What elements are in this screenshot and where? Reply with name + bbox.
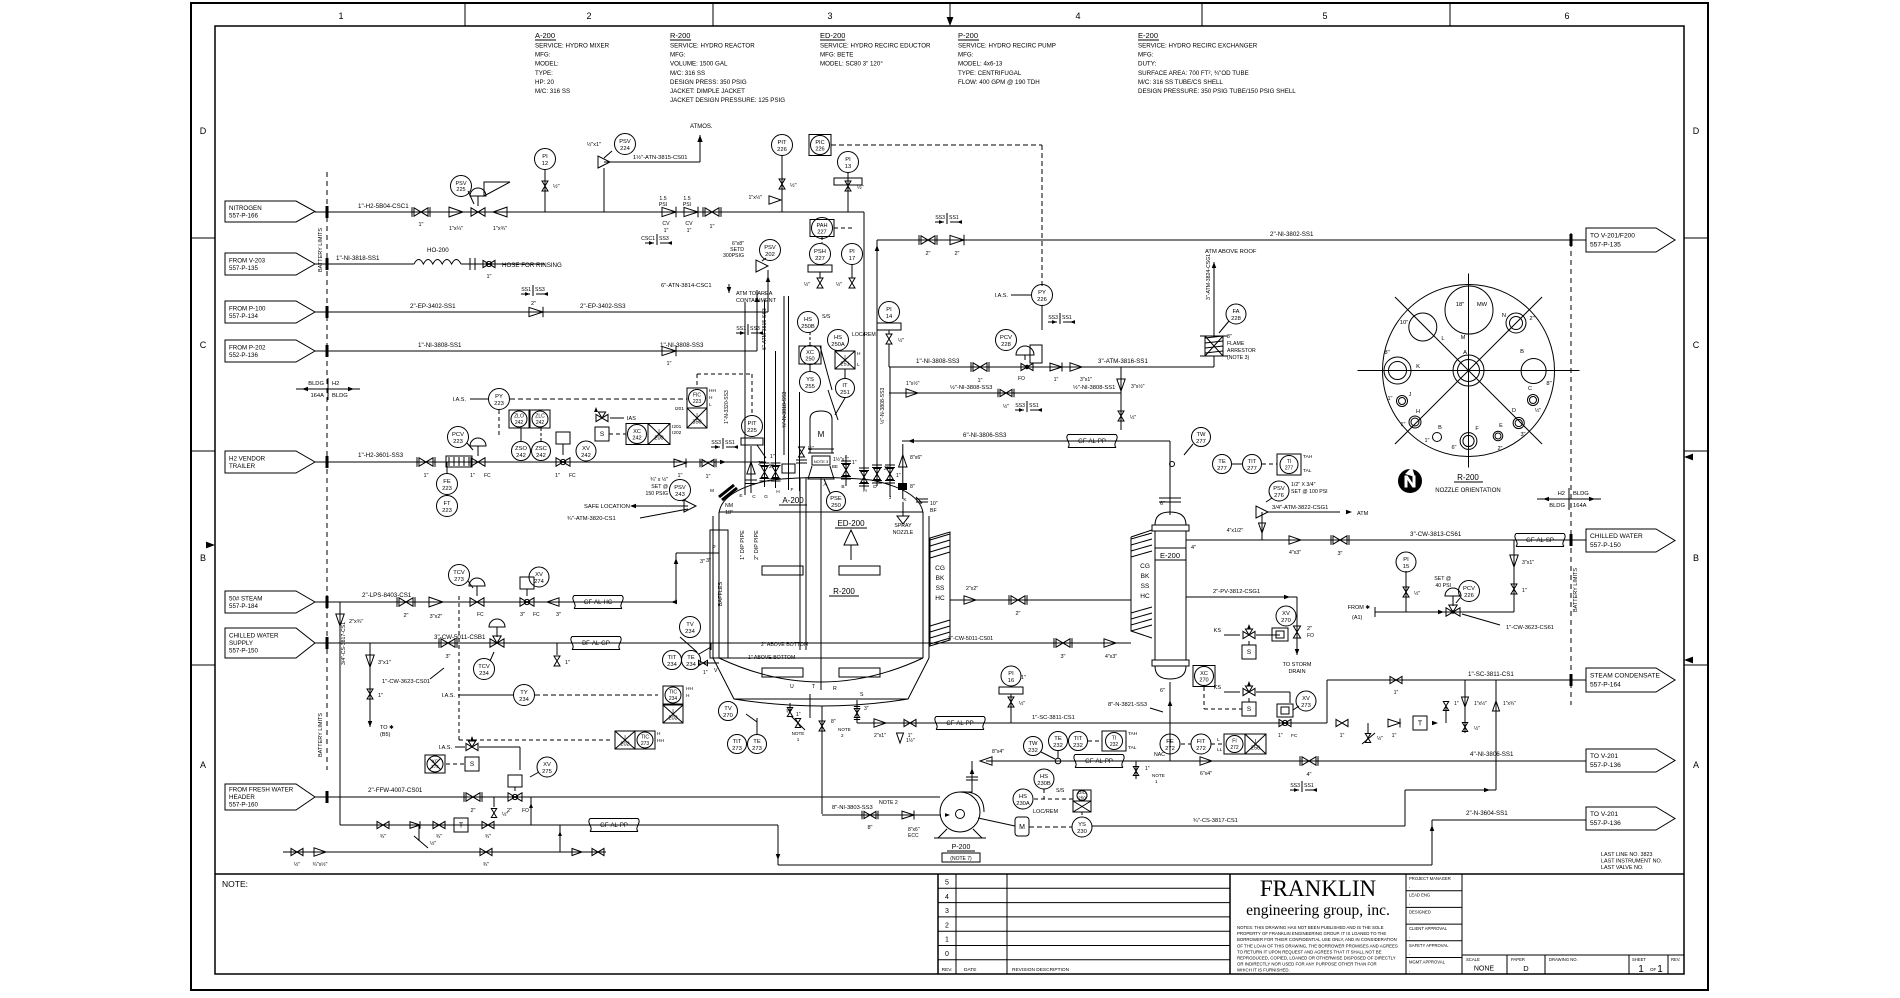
svg-text:H2 VENDOR: H2 VENDOR [229,455,266,462]
svg-text:FIC: FIC [693,393,701,399]
svg-text:HOSE FOR RINSING: HOSE FOR RINSING [502,262,562,269]
svg-text:1": 1" [687,228,692,234]
svg-text:FC: FC [484,473,491,479]
svg-text:TV: TV [686,622,694,628]
svg-text:SURFACE AREA: 700 FT², ¾"OD TU: SURFACE AREA: 700 FT², ¾"OD TUBE [1138,70,1249,77]
svg-text:PI: PI [1008,671,1014,677]
svg-text:5: 5 [945,880,949,887]
svg-text:1": 1" [1278,733,1283,739]
svg-text:BK: BK [936,575,945,582]
svg-text:L: L [709,402,712,408]
svg-text:2": 2" [531,301,536,307]
svg-text:CV: CV [662,221,670,227]
svg-text:225: 225 [747,428,757,434]
svg-text:223: 223 [442,508,452,514]
svg-text:TIT: TIT [1248,459,1257,465]
svg-text:GF-AL-SP: GF-AL-SP [1526,538,1554,544]
svg-text:1": 1" [555,473,560,479]
svg-text:I201: I201 [672,424,682,430]
svg-text:½": ½" [804,281,810,288]
svg-text:272: 272 [1230,745,1239,751]
svg-text:1½"x1": 1½"x1" [833,456,849,463]
svg-text:I202: I202 [672,430,682,436]
svg-text:H: H [863,488,867,494]
svg-text:8": 8" [1546,381,1551,387]
svg-text:N: N [1502,313,1506,319]
svg-text:XV: XV [1282,611,1290,617]
svg-text:DRAIN: DRAIN [1288,669,1305,675]
svg-text:MW: MW [1477,302,1488,308]
svg-text:2": 2" [1307,626,1312,632]
svg-text:12: 12 [542,161,548,167]
svg-text:1"-SC-3811-CS1: 1"-SC-3811-CS1 [1032,715,1075,721]
svg-text:6: 6 [1564,11,1569,21]
svg-text:H2: H2 [1558,491,1565,497]
svg-text:1": 1" [1522,588,1527,594]
svg-text:.: . [1409,917,1410,923]
svg-text:1"-CW-3623-CS01: 1"-CW-3623-CS01 [382,679,430,685]
svg-text:FLOW: 400 GPM @ 190 TDH: FLOW: 400 GPM @ 190 TDH [958,79,1040,86]
svg-text:XV: XV [1302,696,1310,702]
svg-text:ZLC: ZLC [535,414,545,420]
svg-text:D: D [873,484,877,490]
svg-text:2"-NI-3802-SS1: 2"-NI-3802-SS1 [1270,231,1314,238]
svg-text:.: . [1409,901,1410,907]
svg-text:224: 224 [620,146,630,152]
svg-text:M: M [710,488,714,494]
svg-text:H: H [709,395,713,401]
svg-text:3"-CW-5011-CSB1: 3"-CW-5011-CSB1 [434,634,486,641]
svg-text:CSC1: CSC1 [641,236,655,242]
svg-text:H2: H2 [332,381,339,387]
svg-text:A-200: A-200 [535,31,555,40]
svg-text:234: 234 [686,662,696,668]
svg-text:S: S [860,692,864,698]
svg-text:3: 3 [827,11,832,21]
svg-text:HH: HH [657,738,664,744]
svg-text:.: . [1409,884,1410,890]
svg-text:SAFETY APPROVAL: SAFETY APPROVAL [1409,943,1449,948]
svg-text:PSI: PSI [683,202,691,208]
svg-text:M/C: 316 SS: M/C: 316 SS [535,88,570,95]
svg-text:SS1: SS1 [949,215,959,221]
svg-text:277: 277 [1247,466,1257,472]
svg-text:1"-SC-3811-CS1: 1"-SC-3811-CS1 [1468,671,1514,678]
svg-text:D: D [1693,126,1700,136]
svg-text:VOLUME: 1500 GAL: VOLUME: 1500 GAL [670,61,728,68]
svg-text:A: A [1693,760,1699,770]
svg-text:XV: XV [535,572,543,578]
svg-text:HS: HS [834,335,842,341]
svg-text:PSH: PSH [814,249,826,255]
svg-text:C: C [1528,386,1532,392]
svg-text:1"-H2-5B04-CSC1: 1"-H2-5B04-CSC1 [358,203,409,210]
svg-text:DATE: DATE [964,967,976,973]
svg-text:T: T [1418,721,1423,728]
svg-text:HH: HH [709,388,716,394]
svg-text:LOC/REM: LOC/REM [1033,809,1058,815]
svg-text:3"-ATM-3816-SS1: 3"-ATM-3816-SS1 [1098,358,1148,365]
svg-text:5: 5 [1322,11,1327,21]
svg-text:3": 3" [1060,654,1065,660]
svg-text:227: 227 [815,256,825,262]
svg-text:2": 2" [403,613,408,619]
svg-text:M/C: 316 SS: M/C: 316 SS [670,70,705,77]
svg-text:ECC: ECC [908,833,919,839]
svg-text:1"-CW-3623-CS61: 1"-CW-3623-CS61 [1506,625,1554,631]
svg-text:I201: I201 [675,406,685,412]
svg-text:REPRODUCED, COPIED, LOANED OR: REPRODUCED, COPIED, LOANED OR OTHERWISE … [1237,956,1396,961]
svg-text:H: H [657,731,661,737]
svg-text:NM: NM [725,503,733,509]
svg-text:226: 226 [1037,297,1047,303]
svg-text:2"-PV-3812-CSG1: 2"-PV-3812-CSG1 [1213,589,1260,595]
svg-text:CHILLED WATER: CHILLED WATER [1590,533,1643,540]
svg-text:ZSO: ZSO [515,446,527,452]
svg-text:M: M [1461,335,1466,341]
svg-text:B: B [200,553,206,563]
svg-text:.: . [1409,934,1410,940]
svg-text:F: F [791,487,794,493]
svg-text:SERVICE: HYDRO RECIRC EDUCTOR: SERVICE: HYDRO RECIRC EDUCTOR [820,43,931,50]
svg-text:273: 273 [641,741,650,747]
svg-text:1" ABOVE BOTTOM: 1" ABOVE BOTTOM [748,655,795,661]
svg-text:0: 0 [945,951,949,958]
svg-text:NOTE: NOTE [838,727,851,732]
svg-text:TW: TW [1028,741,1038,747]
svg-text:242: 242 [536,420,545,426]
svg-text:164A: 164A [310,393,324,399]
svg-text:I.A.S.: I.A.S. [442,693,456,699]
svg-text:V: V [714,668,718,674]
svg-text:270: 270 [1199,678,1208,684]
svg-text:223: 223 [494,401,504,407]
svg-text:1": 1" [418,222,423,228]
svg-text:3": 3" [706,558,711,564]
svg-text:XV: XV [543,762,551,768]
svg-text:1": 1" [664,228,669,234]
svg-text:273: 273 [454,577,464,583]
svg-text:242: 242 [516,453,526,459]
svg-text:SS3: SS3 [1048,315,1058,321]
svg-text:277: 277 [1217,466,1227,472]
svg-text:2"-EP-3402-SS1: 2"-EP-3402-SS1 [410,303,456,310]
svg-text:JACKET DESIGN PRESSURE: 125 PS: JACKET DESIGN PRESSURE: 125 PSIG [670,97,785,104]
svg-text:SS1: SS1 [1304,783,1314,789]
svg-text:C: C [1693,340,1700,350]
svg-text:(NOTE 3): (NOTE 3) [1227,355,1249,361]
svg-text:HP: 20: HP: 20 [535,79,554,86]
svg-text:MFG:: MFG: [958,52,974,59]
svg-text:T: T [459,823,464,830]
svg-text:GF-AL-PP: GF-AL-PP [600,823,628,829]
svg-text:CG: CG [935,565,945,572]
svg-text:PI: PI [1403,557,1409,563]
svg-text:PSE: PSE [830,496,842,502]
svg-text:PAH: PAH [816,223,827,229]
svg-text:TI: TI [1287,459,1291,465]
svg-text:HEADER: HEADER [229,794,255,801]
svg-text:TCV: TCV [453,570,465,576]
svg-text:2" DIP PIPE: 2" DIP PIPE [754,530,760,560]
svg-text:L: L [1217,737,1220,743]
svg-text:251: 251 [840,390,850,396]
svg-text:DUTY:: DUTY: [1138,61,1157,68]
svg-text:4"x3": 4"x3" [1289,550,1301,556]
svg-text:202: 202 [620,742,629,748]
svg-text:8": 8" [831,719,836,725]
svg-text:D: D [1512,408,1516,414]
svg-text:2"x¾": 2"x¾" [349,619,363,625]
svg-text:1"x¾": 1"x¾" [1503,701,1516,707]
svg-text:3"x1": 3"x1" [378,660,391,666]
svg-text:E-200: E-200 [1138,31,1158,40]
svg-text:NAC: NAC [1154,752,1165,758]
svg-text:223: 223 [693,399,702,405]
svg-text:TIC: TIC [641,735,649,741]
svg-text:OF THE LOAN OF THIS DRAWING, T: OF THE LOAN OF THIS DRAWING, THE BORROWE… [1237,943,1398,948]
svg-text:DRAWING NO.: DRAWING NO. [1549,957,1578,962]
svg-text:LAST INSTRUMENT NO.: LAST INSTRUMENT NO. [1601,859,1662,865]
svg-text:50# STEAM: 50# STEAM [229,595,262,602]
svg-text:PCV: PCV [452,432,464,438]
svg-text:SERVICE: HYDRO RECIRC EXCHANGE: SERVICE: HYDRO RECIRC EXCHANGER [1138,43,1258,50]
svg-text:242: 242 [632,436,641,442]
svg-text:40 PSI: 40 PSI [1435,583,1451,589]
svg-text:18": 18" [725,510,733,516]
svg-text:SS1: SS1 [1029,403,1039,409]
svg-text:1": 1" [1387,396,1392,402]
svg-text:SERVICE: HYDRO MIXER: SERVICE: HYDRO MIXER [535,43,610,50]
svg-text:1": 1" [565,660,570,666]
svg-text:3": 3" [700,559,705,565]
svg-text:1": 1" [470,473,475,479]
svg-text:PSV: PSV [1273,486,1285,492]
svg-text:G: G [764,494,768,500]
svg-text:H: H [1416,409,1420,415]
svg-text:FROM ✱: FROM ✱ [1348,604,1371,611]
svg-text:TIT: TIT [668,655,677,661]
svg-text:557-P-150: 557-P-150 [229,648,258,655]
svg-text:SUPPLY: SUPPLY [229,640,253,647]
svg-text:PSI: PSI [659,202,667,208]
svg-text:STEAM CONDENSATE: STEAM CONDENSATE [1590,673,1660,680]
svg-text:½": ½" [553,183,560,190]
svg-text:557-P-166: 557-P-166 [229,212,258,219]
svg-text:3: 3 [945,908,949,915]
svg-text:10": 10" [1400,320,1409,326]
svg-text:ATM TO AREA: ATM TO AREA [736,291,773,297]
svg-text:NOTES: THIS DRAWING HAS NOT BE: NOTES: THIS DRAWING HAS NOT BEEN PUBLISH… [1237,925,1384,930]
svg-text:1": 1" [1392,733,1397,739]
svg-text:8": 8" [867,825,872,831]
svg-text:3"-ATM-3824-CSG1: 3"-ATM-3824-CSG1 [1206,254,1212,300]
svg-text:SERVICE: HYDRO REACTOR: SERVICE: HYDRO REACTOR [670,43,755,50]
svg-text:225: 225 [456,187,465,193]
svg-text:½": ½" [898,337,904,344]
svg-text:TAL: TAL [1128,745,1137,751]
svg-text:HC: HC [1140,593,1150,600]
svg-text:MGMT APPROVAL: MGMT APPROVAL [1409,960,1446,965]
svg-text:6": 6" [1451,445,1456,451]
svg-text:JACKET: DIMPLE JACKET: JACKET: DIMPLE JACKET [670,88,745,95]
svg-text:232: 232 [1073,743,1083,749]
svg-text:½": ½" [1130,414,1136,421]
svg-text:1: 1 [945,937,949,944]
svg-text:IT: IT [842,383,848,389]
svg-text:½"x1": ½"x1" [587,141,601,148]
svg-text:1": 1" [666,361,671,367]
svg-text:B: B [1693,553,1699,563]
svg-text:½": ½" [790,182,797,189]
svg-text:557-P-150: 557-P-150 [1590,542,1621,549]
svg-text:1½"-ATN-3815-CS01: 1½"-ATN-3815-CS01 [633,154,687,161]
svg-text:¾": ¾" [483,862,489,868]
svg-text:552-P-136: 552-P-136 [229,352,258,359]
svg-text:½": ½" [1474,725,1480,732]
svg-text:PSV: PSV [674,485,686,491]
svg-text:2"-EP-3402-SS3: 2"-EP-3402-SS3 [580,303,626,310]
svg-text:4"x1/2": 4"x1/2" [1227,528,1244,534]
svg-text:½": ½" [1019,700,1025,707]
svg-text:1": 1" [709,224,714,230]
svg-text:E: E [739,493,742,499]
svg-text:PCV: PCV [1463,586,1475,592]
svg-text:PI: PI [886,307,892,313]
svg-text:¾" x ½": ¾" x ½" [650,476,668,483]
svg-text:.: . [1409,951,1410,957]
svg-text:½": ½" [430,840,436,847]
svg-text:½": ½" [502,811,508,818]
svg-text:FROM P-100: FROM P-100 [229,305,266,312]
svg-text:SS3: SS3 [711,440,721,446]
svg-text:H: H [686,693,690,699]
svg-text:TO V-201: TO V-201 [1590,753,1618,760]
svg-text:1": 1" [896,473,901,479]
svg-text:M: M [818,430,825,439]
svg-text:SHEET: SHEET [1632,957,1646,962]
svg-text:1"-NI-3808-SS1: 1"-NI-3808-SS1 [418,342,462,349]
svg-text:½": ½" [1003,403,1009,410]
svg-text:2": 2" [1529,316,1534,322]
svg-text:P-200: P-200 [952,844,971,851]
svg-text:2: 2 [841,733,844,738]
svg-text:HH: HH [686,686,693,692]
svg-text:17: 17 [849,256,855,262]
svg-text:GF-AL-PP: GF-AL-PP [1085,759,1113,765]
svg-text:PI: PI [542,154,548,160]
svg-text:½": ½" [836,281,842,288]
svg-text:TY: TY [520,690,528,696]
svg-text:2: 2 [586,11,591,21]
svg-text:3"-CW-3813-CS61: 3"-CW-3813-CS61 [1410,531,1462,538]
svg-text:2"x2": 2"x2" [966,586,978,592]
svg-text:2"-N-3604-SS1: 2"-N-3604-SS1 [1466,810,1508,817]
svg-text:R-200: R-200 [1457,473,1479,482]
svg-text:U: U [790,684,794,690]
svg-text:NOTE 2: NOTE 2 [879,800,898,806]
svg-text:203: 203 [668,716,677,722]
svg-text:A: A [1463,350,1467,356]
svg-text:250: 250 [805,357,814,363]
svg-text:PIT: PIT [777,140,786,146]
svg-text:14: 14 [886,314,893,320]
svg-text:MFG: BETE: MFG: BETE [820,52,853,59]
svg-text:FRANKLIN: FRANKLIN [1260,876,1377,901]
svg-text:D: D [1523,964,1529,973]
svg-text:232: 232 [1028,748,1038,754]
svg-text:BAFFLES: BAFFLES [718,581,724,606]
svg-text:MODEL: 4x6-13: MODEL: 4x6-13 [958,61,1003,68]
svg-text:BLDG: BLDG [308,381,324,387]
svg-text:ATMOS.: ATMOS. [690,124,713,130]
svg-text:LL: LL [1217,747,1223,753]
svg-text:FROM P-202: FROM P-202 [229,344,266,351]
svg-text:250: 250 [831,503,841,509]
svg-text:E: E [1499,423,1503,429]
svg-text:A-200: A-200 [782,496,804,505]
svg-text:3": 3" [556,612,561,618]
svg-text:274: 274 [534,579,544,585]
svg-text:TE: TE [1218,459,1226,465]
svg-text:242: 242 [581,453,591,459]
svg-text:FE: FE [443,479,451,485]
svg-text:1: 1 [1155,779,1158,784]
svg-text:1": 1" [1054,377,1059,383]
svg-text:FO: FO [522,808,529,814]
svg-text:LEAD ENG: LEAD ENG [1409,893,1430,898]
svg-text:223: 223 [442,486,452,492]
svg-text:PY: PY [495,394,503,400]
svg-text:NITROGEN: NITROGEN [229,205,262,212]
svg-text:PSV: PSV [764,245,776,251]
svg-text:ARRESTOR: ARRESTOR [1227,348,1256,354]
svg-text:L: L [920,500,923,506]
svg-text:SS3: SS3 [935,215,945,221]
svg-text:(NOTE 7): (NOTE 7) [950,856,972,862]
svg-text:L: L [857,362,860,368]
svg-text:BK: BK [1141,573,1150,580]
svg-text:1"x¾": 1"x¾" [493,226,507,232]
svg-text:BLDG: BLDG [1573,491,1589,497]
svg-text:KS: KS [1214,628,1222,634]
svg-text:6"-NI-3806-SS3: 6"-NI-3806-SS3 [963,432,1007,439]
svg-text:NOZZLE: NOZZLE [893,530,914,536]
svg-text:¾": ¾" [786,709,792,715]
svg-text:557-P-135: 557-P-135 [229,265,258,272]
svg-text:S: S [470,761,475,768]
svg-text:½": ½" [294,861,300,868]
svg-text:273: 273 [1301,703,1311,709]
svg-text:4": 4" [1191,545,1196,551]
svg-text:1: 1 [797,737,800,742]
svg-text:3"-CW-5011-CS01: 3"-CW-5011-CS01 [948,636,993,642]
svg-text:10": 10" [930,501,938,507]
svg-text:ATM: ATM [1357,511,1369,517]
svg-text:232: 232 [1053,743,1063,749]
svg-text:255: 255 [805,384,815,390]
svg-text:557-P-135: 557-P-135 [1590,242,1621,249]
svg-text:NONE: NONE [1474,966,1495,973]
svg-text:275: 275 [431,764,439,769]
svg-text:18": 18" [1456,302,1465,308]
svg-text:OF: OF [1650,967,1657,972]
svg-text:1": 1" [703,670,708,676]
svg-text:TI: TI [1112,736,1116,742]
svg-text:SET @ 100 PSI: SET @ 100 PSI [1291,489,1328,495]
svg-text:HS: HS [804,317,812,323]
svg-text:230A: 230A [1016,801,1030,807]
